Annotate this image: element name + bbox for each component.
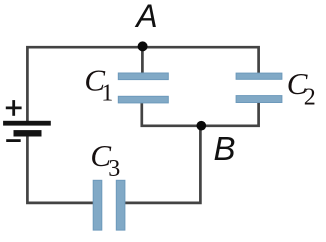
svg-text:A: A [134,0,157,34]
svg-text:1: 1 [101,80,113,106]
svg-text:B: B [214,130,236,167]
svg-text:2: 2 [304,85,316,111]
svg-text:3: 3 [108,156,120,182]
